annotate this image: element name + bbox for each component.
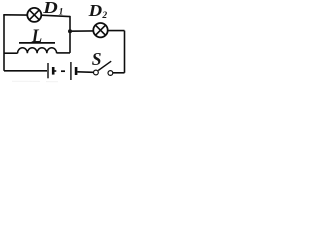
lamp D1 — [27, 8, 41, 22]
svg-text:L: L — [31, 26, 42, 47]
wire battery to switch — [77, 71, 93, 74]
svg-text:S: S — [92, 49, 102, 69]
scan smudge bottom — [12, 80, 58, 83]
wire D2 branch left — [70, 30, 93, 32]
svg-text:D: D — [87, 1, 102, 20]
battery cell2 short plate — [75, 67, 78, 75]
battery cell2 long plate — [70, 62, 72, 80]
battery cell1 long plate — [47, 63, 49, 78]
wire stub right of cell1 — [55, 70, 57, 72]
wire bottom right segment — [113, 72, 125, 74]
wire bottom left segment — [4, 70, 47, 72]
wire dash between cells — [61, 70, 65, 72]
svg-text:2: 2 — [101, 11, 107, 21]
switch S hinge circle — [94, 70, 99, 75]
inductor core line — [19, 42, 55, 44]
svg-text:D: D — [42, 0, 58, 17]
battery cell1 short plate — [52, 67, 55, 75]
inductor L — [4, 48, 70, 53]
lamp D2 — [93, 23, 107, 37]
wire top right segment — [41, 15, 70, 16]
svg-text:1: 1 — [59, 7, 64, 17]
node junction dot — [68, 29, 72, 33]
wire middle vertical (node column) — [69, 16, 71, 53]
switch S lever — [98, 61, 111, 70]
wire top left segment — [3, 14, 27, 16]
wire right vertical — [124, 31, 126, 73]
switch S contact circle — [108, 71, 113, 76]
wire left vertical — [3, 15, 5, 71]
wire D2 branch right — [108, 30, 125, 32]
